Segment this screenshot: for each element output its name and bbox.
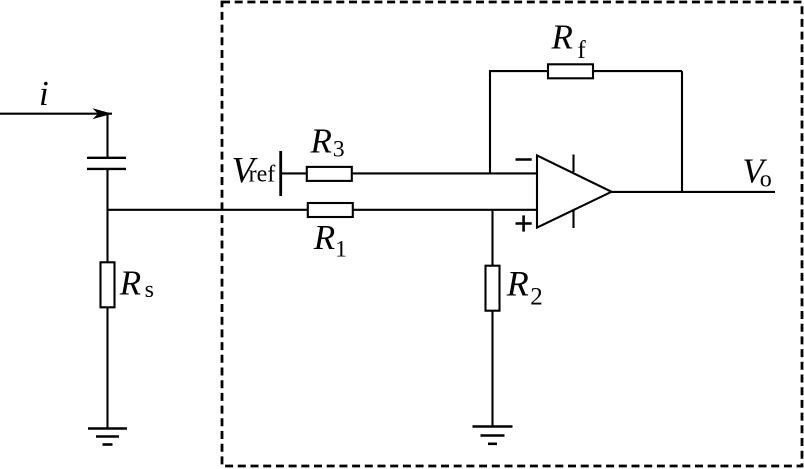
- Vref terminal bar: [279, 151, 282, 196]
- wire: capacitor to node: [106, 169, 108, 211]
- capacitor C bottom plate: [87, 168, 126, 170]
- resistor R3: [307, 167, 352, 181]
- wire: input current line: [0, 113, 112, 115]
- resistor R1: [308, 203, 353, 217]
- svg-text:Vo: Vo: [742, 151, 771, 192]
- wire: lower input line from node to op-amp: [108, 209, 538, 211]
- dashed amplifier box: [222, 2, 802, 466]
- wire: R2 branch down to ground: [491, 210, 493, 427]
- op-amp plus sign: [516, 222, 532, 225]
- wire: node down to Rs and ground: [106, 210, 108, 429]
- ground right: [473, 425, 513, 428]
- ground left: [88, 427, 127, 430]
- capacitor C top plate: [87, 157, 126, 159]
- wire: feedback top horizontal: [489, 70, 682, 72]
- op-amp tick upper: [572, 155, 574, 173]
- wire: vertical from arrow to capacitor: [106, 114, 108, 158]
- svg-text:i: i: [39, 74, 49, 113]
- wire: output line: [612, 191, 776, 193]
- op-amp minus sign: [516, 158, 532, 161]
- wire: upper input line from Vref to op-amp: [281, 172, 537, 174]
- wire: feedback left vertical: [489, 71, 491, 173]
- wire: feedback right vertical: [681, 71, 683, 192]
- svg-text:Vref: Vref: [232, 151, 276, 192]
- svg-text:Rf: Rf: [551, 17, 587, 64]
- resistor R2: [486, 266, 500, 311]
- svg-text:R1: R1: [313, 218, 347, 262]
- svg-text:R2: R2: [506, 264, 543, 311]
- op-amp U1 triangle: [537, 155, 612, 227]
- arrowhead of current i: [93, 108, 113, 119]
- resistor Rs: [101, 262, 115, 307]
- op-amp tick lower: [572, 210, 574, 228]
- svg-text:Rs: Rs: [119, 264, 154, 304]
- svg-text:R3: R3: [310, 121, 345, 162]
- resistor Rf: [548, 64, 593, 78]
